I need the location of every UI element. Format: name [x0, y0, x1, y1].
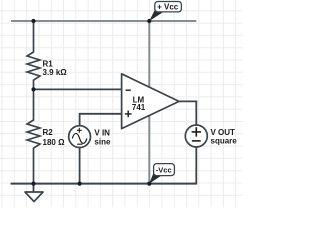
pin - polarity mark: [126, 89, 131, 91]
resistor R1: [27, 21, 40, 89]
svg-text:R2: R2: [43, 128, 54, 137]
resistor R2: [27, 89, 40, 183]
node junction top-left: [31, 19, 35, 23]
source V IN (sine): [69, 126, 91, 148]
node junction +Vcc: [147, 19, 151, 23]
svg-text:square: square: [211, 136, 238, 145]
svg-text:V IN: V IN: [94, 129, 110, 138]
node junction sine-bottom: [78, 182, 82, 186]
wire sine source top stub: [79, 113, 81, 126]
wire non-inverting input: [80, 113, 122, 115]
wire V OUT bottom stub: [195, 147, 197, 185]
svg-text:R1: R1: [43, 59, 54, 68]
ground: [25, 184, 43, 202]
- mark: [192, 140, 201, 142]
wire op-amp V- supply: [148, 112, 150, 184]
sine squiggle: [72, 133, 87, 143]
+ mark: [77, 128, 82, 133]
svg-text:180 Ω: 180 Ω: [43, 138, 66, 147]
svg-text:3.9 kΩ: 3.9 kΩ: [43, 68, 68, 77]
wire sine source bottom stub: [79, 147, 81, 183]
wire V OUT top stub: [195, 101, 197, 126]
- mark: [77, 143, 82, 145]
wire op-amp output: [179, 100, 197, 102]
node junction ground-left: [31, 182, 35, 186]
svg-text:sine: sine: [94, 137, 111, 146]
wire top +Vcc rail: [11, 20, 196, 22]
source V OUT (square): [185, 125, 207, 147]
wire op-amp V+ supply: [148, 21, 150, 90]
node junction -Vcc: [147, 182, 151, 186]
wire inverting input: [34, 88, 122, 90]
net flag -Vcc: [149, 164, 174, 184]
svg-text:+ Vcc: + Vcc: [157, 2, 179, 11]
pin + polarity mark: [125, 111, 132, 118]
+ mark: [192, 127, 201, 136]
svg-text:741: 741: [132, 103, 146, 112]
svg-text:-Vcc: -Vcc: [156, 166, 172, 175]
wire bottom ground rail: [11, 183, 197, 185]
op-amp U1 LM741: [122, 74, 179, 129]
net flag +Vcc: [149, 2, 181, 22]
node junction R1/R2: [31, 87, 35, 91]
